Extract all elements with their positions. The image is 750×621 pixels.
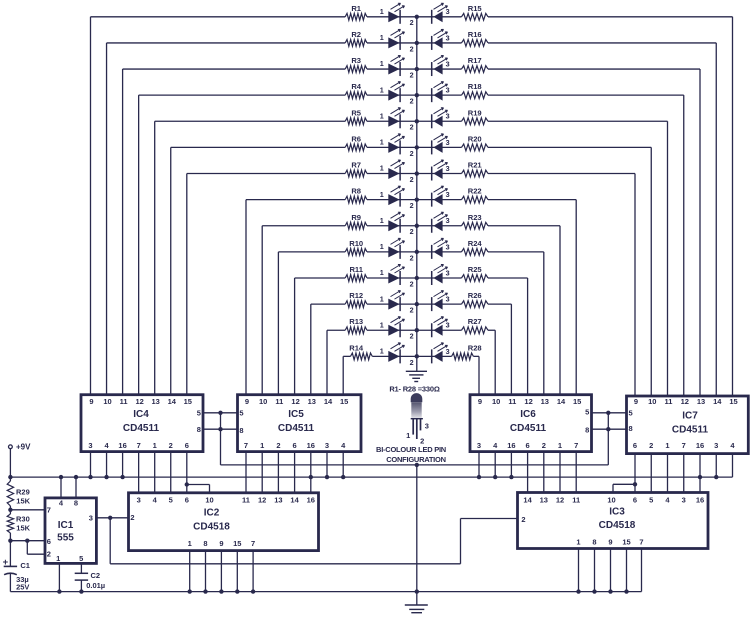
svg-text:1: 1: [380, 268, 384, 277]
svg-text:C1: C1: [20, 561, 30, 570]
svg-text:6: 6: [47, 537, 51, 546]
svg-text:R28: R28: [468, 343, 482, 352]
svg-text:8: 8: [203, 539, 207, 548]
svg-text:2: 2: [410, 332, 414, 341]
svg-text:13: 13: [308, 397, 316, 406]
svg-text:R9: R9: [351, 213, 361, 222]
svg-text:+9V: +9V: [16, 443, 31, 452]
svg-text:R4: R4: [351, 82, 361, 91]
svg-text:10: 10: [607, 496, 615, 505]
svg-text:IC4: IC4: [133, 409, 149, 420]
svg-text:5: 5: [79, 554, 83, 563]
svg-text:6: 6: [633, 496, 637, 505]
svg-text:3: 3: [446, 268, 450, 277]
svg-text:16: 16: [696, 441, 704, 450]
svg-text:CD4518: CD4518: [599, 520, 636, 531]
svg-text:2: 2: [410, 227, 414, 236]
svg-text:7: 7: [574, 441, 578, 450]
svg-text:9: 9: [219, 539, 223, 548]
svg-text:3: 3: [714, 441, 718, 450]
svg-text:16: 16: [696, 496, 704, 505]
svg-text:4: 4: [665, 496, 670, 505]
svg-text:R29: R29: [16, 487, 30, 496]
svg-text:7: 7: [137, 441, 141, 450]
svg-text:9: 9: [478, 397, 482, 406]
svg-text:1: 1: [153, 441, 157, 450]
svg-text:1: 1: [380, 294, 384, 303]
svg-text:10: 10: [259, 397, 267, 406]
svg-text:2: 2: [410, 44, 414, 53]
svg-text:3: 3: [446, 242, 450, 251]
svg-text:R1: R1: [351, 4, 361, 13]
svg-text:12: 12: [135, 397, 143, 406]
svg-text:R7: R7: [351, 161, 361, 170]
svg-text:R15: R15: [468, 4, 483, 13]
svg-text:15: 15: [573, 397, 581, 406]
svg-text:2: 2: [521, 515, 525, 524]
svg-text:7: 7: [47, 505, 51, 514]
svg-text:2: 2: [542, 441, 546, 450]
svg-text:R3: R3: [351, 56, 361, 65]
svg-text:13: 13: [540, 496, 548, 505]
svg-text:5: 5: [585, 407, 589, 416]
svg-text:5: 5: [629, 408, 633, 417]
svg-text:R6: R6: [351, 134, 361, 143]
svg-text:15: 15: [340, 397, 348, 406]
svg-text:8: 8: [585, 425, 589, 434]
svg-text:16: 16: [118, 441, 126, 450]
svg-text:6: 6: [633, 441, 637, 450]
svg-text:2: 2: [410, 123, 414, 132]
svg-text:R1- R28 =330Ω: R1- R28 =330Ω: [389, 385, 440, 394]
svg-text:2: 2: [410, 306, 414, 315]
svg-text:C2: C2: [91, 571, 101, 580]
svg-text:R14: R14: [349, 343, 364, 352]
svg-text:15K: 15K: [16, 524, 30, 533]
svg-text:8: 8: [629, 424, 633, 433]
svg-text:11: 11: [665, 397, 673, 406]
svg-text:16: 16: [307, 441, 315, 450]
svg-text:R19: R19: [468, 108, 482, 117]
svg-text:1: 1: [380, 164, 384, 173]
svg-text:15: 15: [622, 538, 630, 547]
svg-text:15: 15: [729, 397, 737, 406]
svg-text:1: 1: [56, 554, 60, 563]
svg-text:CD4511: CD4511: [123, 423, 160, 434]
svg-text:R21: R21: [468, 161, 483, 170]
svg-text:2: 2: [410, 201, 414, 210]
svg-text:IC3: IC3: [609, 506, 625, 517]
svg-text:5: 5: [169, 496, 173, 505]
svg-text:16: 16: [507, 441, 515, 450]
svg-text:1: 1: [576, 538, 580, 547]
svg-text:2: 2: [420, 436, 424, 445]
svg-text:3: 3: [88, 441, 92, 450]
svg-text:R13: R13: [349, 317, 363, 326]
svg-text:IC6: IC6: [520, 409, 536, 420]
svg-text:2: 2: [130, 513, 134, 522]
svg-text:13: 13: [541, 397, 549, 406]
svg-text:4: 4: [153, 496, 158, 505]
svg-text:13: 13: [274, 496, 282, 505]
svg-text:13: 13: [152, 397, 160, 406]
svg-text:R17: R17: [468, 56, 482, 65]
svg-text:11: 11: [120, 397, 128, 406]
svg-text:1: 1: [380, 242, 384, 251]
svg-text:R23: R23: [468, 213, 482, 222]
svg-text:10: 10: [205, 496, 213, 505]
svg-text:15: 15: [233, 539, 241, 548]
svg-text:CD4511: CD4511: [278, 423, 315, 434]
svg-text:10: 10: [492, 397, 500, 406]
svg-text:8: 8: [197, 425, 201, 434]
svg-text:IC7: IC7: [682, 411, 698, 422]
svg-text:14: 14: [290, 496, 299, 505]
svg-text:CD4511: CD4511: [510, 423, 547, 434]
svg-text:1: 1: [380, 320, 384, 329]
svg-text:3: 3: [137, 496, 141, 505]
svg-text:R18: R18: [468, 82, 482, 91]
svg-text:3: 3: [425, 421, 429, 430]
svg-text:CONFIGURATION: CONFIGURATION: [386, 455, 446, 464]
svg-text:15: 15: [184, 397, 192, 406]
svg-text:2: 2: [410, 279, 414, 288]
svg-text:14: 14: [168, 397, 177, 406]
svg-text:3: 3: [446, 321, 450, 330]
svg-text:10: 10: [103, 397, 111, 406]
svg-text:1: 1: [406, 431, 410, 440]
svg-text:11: 11: [242, 496, 250, 505]
svg-text:1: 1: [380, 138, 384, 147]
svg-text:R26: R26: [468, 291, 482, 300]
svg-text:5: 5: [239, 408, 243, 417]
svg-text:3: 3: [446, 33, 450, 42]
svg-text:4: 4: [493, 441, 498, 450]
svg-text:3: 3: [682, 496, 686, 505]
svg-text:R8: R8: [351, 187, 361, 196]
svg-text:1: 1: [380, 33, 384, 42]
svg-text:3: 3: [446, 59, 450, 68]
svg-text:10: 10: [648, 397, 656, 406]
svg-text:R30: R30: [16, 515, 30, 524]
svg-text:555: 555: [57, 533, 74, 544]
svg-text:3: 3: [446, 295, 450, 304]
svg-text:2: 2: [276, 441, 280, 450]
svg-text:2: 2: [410, 70, 414, 79]
svg-text:3: 3: [89, 513, 93, 522]
svg-text:3: 3: [446, 7, 450, 16]
svg-text:6: 6: [293, 441, 297, 450]
svg-text:9: 9: [634, 397, 638, 406]
svg-text:15K: 15K: [16, 496, 30, 505]
svg-text:9: 9: [608, 538, 612, 547]
svg-text:1: 1: [380, 347, 384, 356]
svg-text:8: 8: [239, 426, 243, 435]
svg-text:4: 4: [59, 499, 64, 508]
svg-text:3: 3: [325, 441, 329, 450]
svg-text:14: 14: [557, 397, 566, 406]
svg-text:2: 2: [410, 358, 414, 367]
svg-text:12: 12: [258, 496, 266, 505]
svg-text:9: 9: [89, 397, 93, 406]
svg-text:12: 12: [291, 397, 299, 406]
svg-text:1: 1: [380, 111, 384, 120]
svg-text:7: 7: [639, 538, 643, 547]
svg-text:2: 2: [410, 253, 414, 262]
svg-text:25V: 25V: [16, 582, 29, 591]
svg-text:R24: R24: [468, 239, 483, 248]
svg-text:1: 1: [380, 216, 384, 225]
svg-text:6: 6: [185, 496, 189, 505]
svg-text:6: 6: [526, 441, 530, 450]
svg-text:3: 3: [446, 112, 450, 121]
svg-text:2: 2: [47, 550, 51, 559]
svg-text:BI-COLOUR LED PIN: BI-COLOUR LED PIN: [376, 445, 446, 454]
svg-text:1: 1: [380, 7, 384, 16]
svg-text:R10: R10: [349, 239, 363, 248]
svg-text:11: 11: [508, 397, 516, 406]
svg-text:16: 16: [307, 496, 315, 505]
svg-text:1: 1: [260, 441, 264, 450]
svg-text:0.01µ: 0.01µ: [86, 581, 105, 590]
svg-text:R11: R11: [349, 265, 363, 274]
svg-text:3: 3: [446, 216, 450, 225]
svg-text:3: 3: [477, 441, 481, 450]
svg-text:14: 14: [523, 496, 532, 505]
svg-text:CD4511: CD4511: [672, 424, 709, 435]
svg-text:3: 3: [446, 190, 450, 199]
svg-text:12: 12: [556, 496, 564, 505]
svg-text:R12: R12: [349, 291, 363, 300]
svg-text:14: 14: [324, 397, 333, 406]
svg-text:4: 4: [104, 441, 109, 450]
svg-text:11: 11: [572, 496, 580, 505]
svg-text:IC2: IC2: [204, 508, 220, 519]
svg-text:9: 9: [245, 397, 249, 406]
svg-text:2: 2: [410, 175, 414, 184]
svg-text:8: 8: [592, 538, 596, 547]
svg-text:R2: R2: [351, 30, 361, 39]
svg-text:7: 7: [251, 539, 255, 548]
svg-text:5: 5: [197, 408, 201, 417]
svg-text:12: 12: [524, 397, 532, 406]
svg-text:R16: R16: [468, 30, 482, 39]
svg-text:4: 4: [341, 441, 346, 450]
svg-text:6: 6: [185, 441, 189, 450]
svg-text:R22: R22: [468, 187, 482, 196]
svg-text:2: 2: [410, 18, 414, 27]
svg-text:3: 3: [446, 164, 450, 173]
svg-text:R20: R20: [468, 134, 482, 143]
svg-text:14: 14: [713, 397, 722, 406]
svg-text:IC5: IC5: [288, 409, 304, 420]
svg-text:1: 1: [380, 190, 384, 199]
svg-text:R5: R5: [351, 108, 361, 117]
svg-text:13: 13: [697, 397, 705, 406]
svg-text:2: 2: [649, 441, 653, 450]
svg-text:R27: R27: [468, 317, 482, 326]
svg-text:7: 7: [682, 441, 686, 450]
svg-text:3: 3: [446, 86, 450, 95]
svg-text:5: 5: [649, 496, 653, 505]
svg-text:IC1: IC1: [58, 520, 74, 531]
svg-text:2: 2: [410, 97, 414, 106]
svg-text:1: 1: [665, 441, 669, 450]
svg-text:1: 1: [380, 59, 384, 68]
svg-text:2: 2: [169, 441, 173, 450]
svg-text:4: 4: [730, 441, 735, 450]
svg-text:3: 3: [446, 347, 450, 356]
svg-text:CD4518: CD4518: [193, 521, 230, 532]
svg-text:2: 2: [410, 149, 414, 158]
svg-text:1: 1: [380, 85, 384, 94]
svg-text:R25: R25: [468, 265, 483, 274]
svg-text:1: 1: [558, 441, 562, 450]
svg-text:8: 8: [74, 499, 78, 508]
svg-text:12: 12: [681, 397, 689, 406]
svg-text:7: 7: [244, 441, 248, 450]
svg-text:1: 1: [188, 539, 192, 548]
svg-text:11: 11: [275, 397, 283, 406]
svg-text:3: 3: [446, 138, 450, 147]
